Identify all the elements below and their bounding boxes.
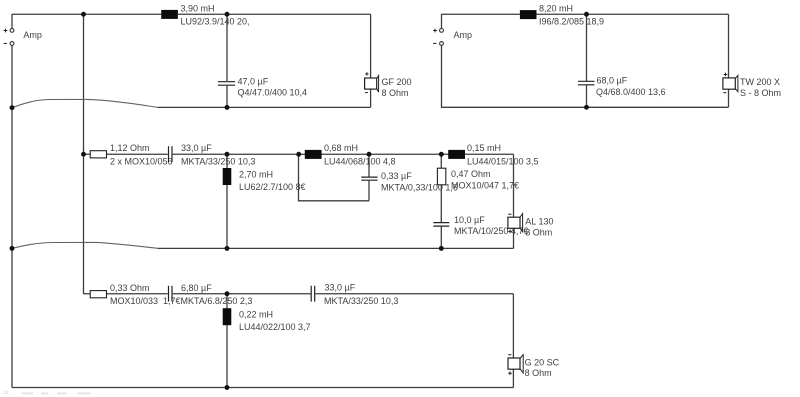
- svg-text:Q4/68.0/400 13,6: Q4/68.0/400 13,6: [596, 87, 666, 97]
- svg-text:2,70 mH: 2,70 mH: [239, 169, 273, 179]
- svg-text:Amp: Amp: [23, 30, 42, 40]
- svg-text:3,90 mH: 3,90 mH: [181, 4, 215, 14]
- svg-text:0,47 Ohm: 0,47 Ohm: [451, 169, 491, 179]
- svg-text:S - 8 Ohm: S - 8 Ohm: [740, 88, 781, 98]
- svg-text:8,20 mH: 8,20 mH: [539, 4, 573, 14]
- svg-text:33,0 µF: 33,0 µF: [325, 283, 356, 293]
- svg-text:LU44/022/100 3,7: LU44/022/100 3,7: [239, 322, 311, 332]
- svg-text:Amp: Amp: [454, 30, 473, 40]
- svg-text:MOX10/047 1,7€: MOX10/047 1,7€: [451, 180, 519, 190]
- svg-text:0,22 mH: 0,22 mH: [239, 309, 273, 319]
- svg-text:0,68 mH: 0,68 mH: [324, 143, 358, 153]
- svg-text:I96/8.2/085 18,9: I96/8.2/085 18,9: [539, 16, 604, 26]
- svg-text:47,0 µF: 47,0 µF: [238, 76, 269, 86]
- svg-text:10,0 µF: 10,0 µF: [454, 215, 485, 225]
- svg-text:8 Ohm: 8 Ohm: [525, 228, 552, 238]
- svg-text:TW 200 X: TW 200 X: [740, 77, 780, 87]
- svg-text:LU62/2.7/100 8€: LU62/2.7/100 8€: [239, 182, 306, 192]
- svg-text:0,33 Ohm: 0,33 Ohm: [110, 283, 150, 293]
- svg-text:MOX10/033 1,7€: MOX10/033 1,7€: [110, 296, 181, 306]
- svg-text:8 Ohm: 8 Ohm: [382, 88, 409, 98]
- svg-text:68,0 µF: 68,0 µF: [597, 76, 628, 86]
- svg-text:8 Ohm: 8 Ohm: [525, 368, 552, 378]
- svg-text:LU44/068/100 4,8: LU44/068/100 4,8: [324, 157, 396, 167]
- svg-text:0,33 µF: 0,33 µF: [381, 171, 412, 181]
- svg-text:33,0 µF: 33,0 µF: [181, 143, 212, 153]
- svg-text:MKTA/6.8/250 2,3: MKTA/6.8/250 2,3: [181, 296, 253, 306]
- svg-text:1,12 Ohm: 1,12 Ohm: [110, 143, 150, 153]
- svg-text:Q4/47.0/400 10,4: Q4/47.0/400 10,4: [238, 88, 308, 98]
- svg-text:LU92/3.9/140 20,: LU92/3.9/140 20,: [181, 16, 250, 26]
- svg-text:MKTA/0,33/100 1,6: MKTA/0,33/100 1,6: [381, 182, 458, 192]
- svg-text:MKTA/33/250 10,3: MKTA/33/250 10,3: [181, 157, 255, 167]
- svg-text:G 20 SC: G 20 SC: [525, 357, 560, 367]
- svg-text:2 x MOX10/056: 2 x MOX10/056: [110, 157, 173, 167]
- svg-text:GF 200: GF 200: [382, 77, 412, 87]
- svg-text:6,80 µF: 6,80 µF: [181, 283, 212, 293]
- svg-text:AL 130: AL 130: [525, 216, 553, 226]
- svg-text:MKTA/33/250 10,3: MKTA/33/250 10,3: [324, 296, 398, 306]
- svg-text:LU44/015/100 3,5: LU44/015/100 3,5: [467, 157, 539, 167]
- svg-text:0,15 mH: 0,15 mH: [467, 143, 501, 153]
